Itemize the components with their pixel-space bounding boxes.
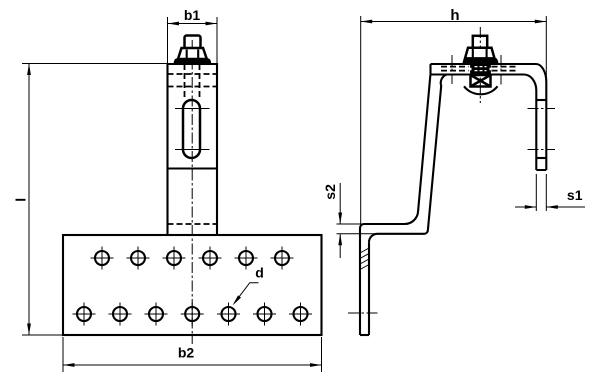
h dimension line [361, 21, 547, 23]
label d leader arrowhead [233, 295, 241, 305]
b1 arrow left [168, 22, 180, 26]
slot front (elongated hole) [183, 100, 200, 158]
slot end line top in strip [536, 99, 546, 101]
base plate strip left edge [359, 228, 361, 335]
hole bottom row 2 [109, 303, 132, 326]
b1 arrow right [206, 22, 218, 26]
nut front face lines [187, 50, 199, 60]
vertical bar outline front [168, 64, 218, 235]
bolt stud front [185, 36, 201, 49]
centerline front vertical [191, 40, 193, 344]
l arrow top [27, 64, 31, 76]
s2 arrow down [338, 213, 342, 225]
hole top row 1 [91, 247, 114, 270]
hole bottom row 4 [181, 303, 204, 326]
h arrow left [361, 20, 373, 24]
hatch mark 1 on strip [360, 248, 369, 253]
l arrow bottom [27, 324, 31, 336]
hole bottom row 5 [217, 303, 240, 326]
svg-text:s2: s2 [322, 184, 338, 200]
b2 dimension line [63, 364, 322, 366]
svg-text:l: l [13, 198, 29, 202]
b2 extension left [62, 337, 64, 372]
base plate front [63, 235, 322, 335]
b1 extension line left [167, 17, 169, 63]
nut front M12 [178, 48, 207, 59]
nut side [465, 48, 495, 59]
carriage bolt square neck with X [471, 75, 491, 87]
bolt stud side [473, 36, 487, 49]
svg-text:d: d [255, 265, 264, 281]
s2 arrow up [338, 234, 342, 246]
hole bottom row 7 [289, 303, 312, 326]
s1 dimension line left part [515, 206, 536, 208]
svg-text:s1: s1 [567, 187, 583, 203]
strip slot center mark top [528, 108, 556, 110]
hatch mark 2 on strip [360, 254, 369, 259]
h arrow right [535, 20, 547, 24]
b2 arrow left [63, 363, 75, 367]
hidden bolt shank left [184, 64, 186, 99]
hidden bolt shank right [199, 64, 201, 99]
strip hole centerline [348, 312, 378, 314]
slot end line bottom in strip [536, 157, 546, 159]
hook arm outer line with bottom bend into flange top [360, 75, 430, 228]
hole bottom row 1 [73, 303, 96, 326]
h extension right [545, 16, 547, 78]
nut side face lines [473, 49, 487, 58]
hidden bolt shank sides through plate [471, 64, 489, 75]
b2 arrow right [310, 363, 322, 367]
hidden line bolt head bottom y86.5 [168, 86, 218, 88]
s2 extension bottom [337, 233, 378, 235]
l extension top [22, 63, 167, 65]
hatch mark 3 on strip [360, 259, 369, 264]
round bolt head arc below plate [464, 86, 498, 94]
hook arm inner line with bends into flange bottom [369, 75, 447, 243]
l extension bottom [22, 334, 63, 336]
slot lower arc center crosshair [175, 149, 210, 151]
svg-text:b1: b1 [184, 7, 201, 23]
strip slot center mark bottom [528, 149, 556, 151]
hook right strip (bar seen edge-on) [536, 82, 546, 170]
b2 extension right [321, 337, 323, 372]
slot end centerline left in plate [451, 55, 453, 84]
top plate side: top surface with right outer bend [431, 64, 547, 82]
hole top row 6 [271, 247, 294, 270]
slot upper arc center crosshair [175, 108, 210, 110]
s1 arrow pointing right [525, 205, 537, 209]
svg-text:b2: b2 [178, 345, 195, 361]
square neck diagonals [471, 75, 491, 87]
hidden bend edge y224 [168, 223, 218, 225]
top plate side: bottom surface with right inner bend [431, 75, 537, 91]
base plate strip right edge [368, 242, 370, 335]
s1 extension right [545, 174, 547, 211]
centerline side bolt [479, 27, 481, 103]
b1 extension line right [216, 17, 218, 63]
s2 extension top [337, 223, 365, 225]
bolt shank dark region through plate [472, 64, 490, 74]
hole top row 2 [127, 247, 150, 270]
hidden line plate bottom behind bar y74 [168, 73, 218, 75]
s2 dimension line lower [339, 234, 341, 258]
l dimension line [28, 64, 30, 336]
hidden slot lines in top plate [441, 67, 516, 71]
washer side [463, 58, 498, 63]
svg-text:h: h [450, 7, 459, 24]
top plate side: left end cap [429, 64, 431, 75]
label d leader [234, 283, 258, 304]
s1 extension left [535, 174, 537, 211]
h extension left [360, 16, 362, 224]
hatch mark 4 on strip [360, 265, 369, 270]
s1 dimension line right part [546, 206, 585, 208]
bar lower end joint line [168, 167, 218, 169]
base plate strip bottom cap [360, 334, 369, 336]
s2 dimension line upper [339, 183, 341, 224]
hole bottom row 3 [145, 303, 168, 326]
b1 dimension line [168, 23, 218, 25]
hole top row 5 [235, 247, 258, 270]
s1 arrow pointing left [546, 205, 558, 209]
hole bottom row 6 [253, 303, 276, 326]
washer front [174, 59, 211, 64]
slot end centerline right in plate [500, 55, 502, 87]
hole top row 3 [163, 247, 186, 270]
hole top row 4 [199, 247, 222, 270]
